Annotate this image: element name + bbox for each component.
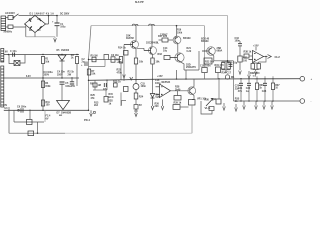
svg-text:5V6: 5V6 — [156, 96, 161, 99]
capacitor drop 1 — [240, 79, 242, 101]
resistor R17 — [162, 38, 168, 42]
svg-text:BD139: BD139 — [201, 40, 209, 43]
trimmer bracket — [104, 55, 109, 60]
wire emitter columns — [136, 48, 153, 58]
wire screen end corner down — [204, 26, 206, 67]
+15V stub — [255, 47, 257, 51]
fuse F1 — [8, 16, 13, 20]
potentiometer VR2 — [206, 98, 221, 106]
svg-text:100n: 100n — [155, 82, 161, 85]
meter V mark — [130, 77, 133, 80]
svg-text:669A: 669A — [217, 50, 223, 53]
resistor R7 — [87, 69, 90, 75]
wire output — [171, 90, 190, 92]
svg-text:VLG: VLG — [205, 106, 211, 110]
svg-text:1N4003: 1N4003 — [61, 49, 70, 52]
svg-text:220: 220 — [155, 105, 160, 108]
svg-text:C18 100n: C18 100n — [200, 65, 211, 68]
svg-text:R30: R30 — [205, 98, 210, 101]
wire heater rail A — [4, 54, 80, 56]
wire Q6 emitter down — [181, 62, 184, 70]
junction stubs above rail — [257, 76, 273, 79]
resistor R38 — [244, 54, 249, 58]
feedback resistor — [177, 91, 179, 96]
svg-text:10k: 10k — [156, 61, 161, 64]
svg-text:C19 10p: C19 10p — [228, 62, 238, 65]
svg-text:R32: R32 — [212, 98, 217, 101]
svg-text:470k: 470k — [117, 71, 123, 74]
transistor Q9 — [188, 87, 196, 95]
wire Q8 emitter to node — [212, 55, 233, 61]
ground arrow — [54, 38, 57, 42]
node dots bottom rail — [240, 100, 273, 101]
svg-text:0.22: 0.22 — [187, 50, 192, 53]
wire AC return down — [25, 24, 27, 37]
svg-text:CL2: CL2 — [275, 55, 281, 59]
svg-text:R5 1M: R5 1M — [91, 54, 98, 57]
svg-text:100u25V: 100u25V — [65, 85, 75, 88]
resistor R14 — [124, 51, 129, 56]
wire — [180, 106, 189, 108]
wire grid line — [89, 59, 122, 61]
transformer secondary winding — [1, 49, 4, 63]
ground arrow x249 — [248, 71, 251, 78]
svg-text:NE5534: NE5534 — [162, 81, 171, 84]
ground arrow — [135, 113, 138, 117]
svg-text:6V: 6V — [5, 52, 8, 54]
wire heater rail B — [4, 77, 80, 79]
ground arrow — [223, 103, 226, 110]
resistor on ground bus — [28, 131, 34, 136]
resistor R10 — [114, 83, 118, 87]
wire Q1 base column — [123, 45, 125, 80]
resistor R22 — [204, 58, 212, 64]
svg-text:150k: 150k — [45, 85, 51, 88]
svg-text:BR: BR — [59, 115, 63, 117]
resistor R3 — [76, 54, 77, 55]
svg-text:2240BL: 2240BL — [151, 41, 160, 44]
svg-text:-: - — [311, 99, 312, 103]
wire pilot loop right — [20, 55, 25, 64]
svg-text:10k: 10k — [45, 60, 50, 63]
svg-text:C23: C23 — [262, 90, 267, 93]
transformer heater winding long — [1, 66, 4, 107]
arrow out — [268, 55, 272, 59]
node open — [18, 109, 20, 111]
wire drop — [29, 110, 31, 119]
svg-text:R39 R40: R39 R40 — [250, 72, 260, 75]
capacitor C5b — [71, 78, 73, 82]
svg-text:47n: 47n — [238, 90, 243, 93]
capacitor on line — [21, 108, 23, 112]
svg-text:15k: 15k — [91, 73, 96, 76]
arrow on Q1 base column — [123, 75, 126, 79]
svg-text:100k: 100k — [177, 32, 183, 34]
connector box — [134, 105, 138, 110]
ground arrow — [235, 104, 238, 111]
RC pair — [222, 61, 231, 63]
resistor R31 — [216, 67, 221, 73]
svg-text:150: 150 — [46, 104, 51, 107]
wire drop to ground bus — [37, 122, 39, 133]
svg-text:10u: 10u — [163, 50, 168, 53]
svg-text:R38 1k: R38 1k — [244, 51, 252, 54]
resistor R5 — [92, 57, 96, 62]
node hop Q1 collector — [132, 24, 138, 26]
transistor Q5 — [173, 36, 181, 44]
resistor box — [189, 100, 196, 106]
meter M1 — [133, 84, 139, 90]
wire x233.5 column — [233, 61, 235, 101]
wire output bottom rail — [234, 100, 301, 102]
svg-text:2560ATU: 2560ATU — [186, 66, 196, 69]
resistor R24 — [134, 93, 138, 99]
wire winding to ground bus — [8, 107, 10, 133]
svg-text:R18: R18 — [158, 53, 163, 56]
svg-text:R10 1k: R10 1k — [113, 80, 121, 83]
capacitor bars x230 — [228, 65, 232, 67]
diode D7 indicator — [57, 101, 70, 110]
svg-text:6L6 PP: 6L6 PP — [135, 0, 144, 4]
transformer T1 primary — [1, 16, 6, 31]
ground arrows under bottom rail — [243, 101, 246, 109]
op-amp IC3 buffer — [249, 51, 264, 63]
node — [8, 54, 10, 56]
wire collector up — [193, 79, 194, 88]
resistor R4 — [41, 81, 44, 88]
wire — [42, 64, 44, 111]
resistor R33 — [238, 56, 242, 62]
svg-text:R16: R16 — [177, 29, 182, 31]
node hop Q2 collector — [149, 24, 155, 26]
wire bridge bottom stub — [34, 33, 36, 37]
resistor on line2 — [27, 120, 33, 125]
capacitor drop 4 — [264, 79, 266, 101]
resistor R1 — [42, 54, 43, 55]
VLG connector loop — [201, 101, 212, 114]
wire — [6, 16, 8, 18]
svg-text:100n: 100n — [141, 85, 147, 88]
switch SW1 — [14, 14, 19, 18]
diode D5 — [58, 55, 66, 61]
wire rail stubs — [177, 70, 187, 79]
capacitor C2 input — [85, 62, 87, 67]
transistor Q8 — [202, 47, 215, 56]
svg-text:1N4003B: 1N4003B — [61, 112, 71, 115]
svg-text:50/60Hz: 50/60Hz — [4, 31, 13, 33]
svg-text:R34 C17: R34 C17 — [222, 71, 232, 74]
pilot lamp box — [14, 61, 20, 66]
resistor R6b — [119, 57, 122, 64]
wire heater line bottom — [4, 109, 89, 111]
wire — [175, 36, 177, 39]
svg-text:100u: 100u — [60, 27, 66, 29]
svg-text:R31 470: R31 470 — [215, 64, 225, 67]
svg-text:R29 1k: R29 1k — [174, 101, 182, 104]
svg-text:6V: 6V — [46, 117, 49, 120]
wire mains lower — [6, 26, 8, 28]
svg-text:R17 220: R17 220 — [158, 35, 168, 38]
svg-text:100: 100 — [243, 59, 248, 62]
svg-text:250V: 250V — [57, 73, 63, 76]
svg-text:R14 1k: R14 1k — [118, 46, 126, 49]
component box — [173, 105, 180, 110]
svg-text:PD-4: PD-4 — [84, 118, 90, 122]
capacitor C1 — [55, 23, 60, 26]
svg-text:1M: 1M — [98, 84, 101, 87]
wire main mid rail — [89, 79, 301, 81]
wire — [13, 26, 26, 28]
capacitor drop 2 — [248, 79, 250, 101]
resistor R19 — [134, 58, 137, 64]
wire pilot loop — [9, 55, 14, 64]
ground arrow — [161, 100, 164, 110]
wire emitter down — [192, 94, 194, 99]
wire HT rail — [57, 15, 228, 17]
svg-text:47k: 47k — [91, 97, 96, 100]
svg-text:C9 100n: C9 100n — [17, 106, 27, 109]
svg-text:2k49: 2k49 — [175, 88, 181, 91]
svg-text:DC 280V: DC 280V — [60, 14, 70, 16]
wire down to ground bus — [191, 105, 193, 133]
svg-text:2k2: 2k2 — [94, 104, 99, 107]
svg-text:47u: 47u — [103, 88, 108, 91]
resistor R9 — [93, 83, 97, 87]
wire — [61, 61, 63, 78]
resistor drop 5 — [272, 79, 274, 101]
svg-text:BD139: BD139 — [183, 37, 191, 40]
svg-text:+15V: +15V — [117, 61, 123, 64]
svg-text:AC100V: AC100V — [5, 11, 15, 15]
resistor R13 — [104, 97, 108, 103]
wire ground bus under bridge — [26, 37, 55, 38]
capacitor C5 — [60, 82, 65, 84]
svg-text:30ATM: 30ATM — [126, 37, 134, 40]
op-amp IC1 — [156, 84, 171, 98]
wire cathode rail lower — [93, 89, 107, 91]
wire — [61, 84, 63, 100]
svg-text:C6 10n: C6 10n — [111, 54, 119, 57]
capacitor C8 — [104, 83, 106, 87]
svg-text:+15V: +15V — [253, 44, 259, 47]
wire screen drop left — [89, 26, 92, 111]
wire rail right corner down — [227, 16, 229, 61]
capacitor on rail — [13, 53, 15, 57]
node — [48, 15, 50, 17]
transistor Q1 — [124, 41, 139, 49]
lamp circle — [225, 75, 229, 79]
ground arrow — [151, 106, 154, 110]
wire sub — [89, 60, 106, 67]
terminal - — [300, 99, 305, 104]
resistor R20 — [151, 58, 154, 64]
terminal + — [300, 76, 305, 81]
wire Q8 base column — [184, 51, 199, 70]
wire bridge + up to rail — [46, 16, 49, 25]
transistor Q2 — [144, 47, 157, 55]
svg-text:6.3V: 6.3V — [26, 76, 31, 78]
wire column — [120, 93, 122, 107]
resistor R23 — [124, 87, 129, 92]
svg-text:C 10n: C 10n — [10, 50, 17, 53]
ground arrow — [239, 71, 242, 75]
svg-text:D1 1N4007 4X 1A: D1 1N4007 4X 1A — [30, 13, 55, 16]
svg-text:350V: 350V — [44, 74, 50, 77]
svg-text:R24: R24 — [139, 96, 144, 99]
node R16 tap — [176, 25, 178, 27]
wire — [76, 64, 78, 87]
zener D8 — [152, 80, 154, 94]
resistor R11 — [41, 100, 44, 106]
bridge rectifier D1-D4 — [25, 16, 46, 33]
node PD-4 pin — [88, 110, 90, 112]
svg-text:+15V: +15V — [157, 75, 163, 78]
svg-text:R22 56k: R22 56k — [205, 61, 215, 64]
wire mains top to rail — [19, 15, 58, 17]
transistor Q6 — [170, 53, 184, 62]
fuse holder lower box — [8, 25, 13, 29]
svg-text:10k: 10k — [139, 61, 144, 64]
wire cap vertical — [56, 16, 58, 37]
wire bracket — [122, 101, 127, 106]
wire ground bus bottom — [9, 132, 65, 134]
wire heater line 2 — [14, 110, 44, 122]
resistor pair below — [251, 64, 254, 70]
resistor drop 3 — [256, 79, 258, 101]
resistor R18 — [164, 56, 170, 60]
feedback loop — [259, 57, 267, 64]
wire screen rail dashed — [91, 25, 205, 27]
resistor R6 — [111, 57, 115, 62]
svg-text:100n: 100n — [235, 40, 241, 43]
capacitor C16 — [238, 44, 242, 46]
capacitor C18 on screen drop — [202, 68, 207, 73]
wire output — [264, 56, 268, 58]
wire Q1-Q2 link — [137, 48, 144, 50]
